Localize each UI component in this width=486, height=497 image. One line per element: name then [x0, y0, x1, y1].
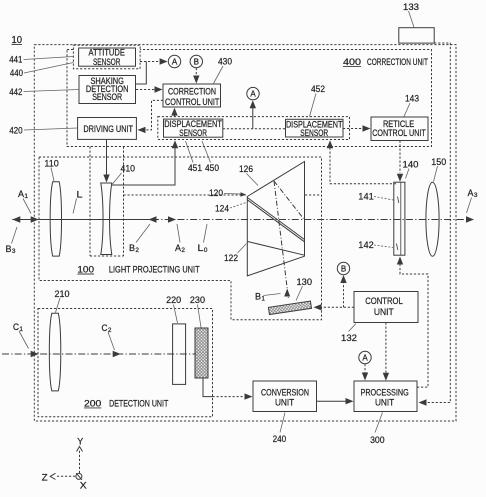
svg-text:SENSOR: SENSOR: [93, 57, 121, 67]
svg-text:124: 124: [215, 203, 229, 214]
svg-text:133: 133: [403, 2, 419, 13]
svg-text:230: 230: [190, 295, 205, 306]
svg-text:442: 442: [9, 87, 22, 98]
svg-text:CONTROL UNIT: CONTROL UNIT: [165, 97, 220, 107]
svg-text:Z: Z: [42, 472, 48, 483]
svg-text:L: L: [198, 243, 204, 253]
svg-text:DRIVING UNIT: DRIVING UNIT: [83, 124, 133, 134]
svg-text:130: 130: [297, 277, 313, 288]
svg-text:A: A: [172, 57, 178, 66]
svg-text:110: 110: [44, 158, 58, 169]
svg-text:SENSOR: SENSOR: [179, 128, 207, 138]
svg-text:0: 0: [204, 247, 208, 254]
svg-text:B: B: [129, 243, 135, 253]
svg-text:CONVERSION: CONVERSION: [261, 387, 309, 397]
svg-text:3: 3: [12, 248, 16, 255]
svg-text:CORRECTION UNIT: CORRECTION UNIT: [367, 57, 428, 68]
svg-text:1: 1: [261, 296, 265, 303]
svg-text:PROCESSING: PROCESSING: [361, 387, 409, 397]
svg-text:150: 150: [431, 157, 446, 168]
svg-text:143: 143: [405, 94, 419, 105]
svg-text:B: B: [6, 244, 12, 254]
svg-text:410: 410: [121, 164, 136, 175]
svg-text:240: 240: [273, 434, 287, 445]
svg-text:UNIT: UNIT: [374, 307, 394, 317]
svg-text:122: 122: [224, 253, 238, 264]
svg-text:B: B: [194, 57, 199, 66]
svg-text:A: A: [250, 89, 256, 98]
svg-text:Y: Y: [77, 437, 84, 448]
svg-text:430: 430: [218, 57, 232, 68]
svg-text:3: 3: [474, 192, 478, 199]
svg-text:2: 2: [181, 247, 185, 254]
svg-text:140: 140: [403, 160, 419, 171]
svg-text:UNIT: UNIT: [375, 398, 395, 408]
svg-text:132: 132: [341, 333, 357, 344]
svg-text:142: 142: [358, 240, 374, 251]
svg-text:LIGHT PROJECTING UNIT: LIGHT PROJECTING UNIT: [109, 265, 200, 276]
svg-text:441: 441: [9, 55, 22, 66]
svg-text:UNIT: UNIT: [275, 398, 295, 408]
svg-text:SENSOR: SENSOR: [300, 128, 328, 138]
svg-text:C: C: [13, 322, 19, 332]
svg-text:210: 210: [55, 289, 70, 300]
svg-text:451: 451: [188, 163, 202, 174]
svg-text:CONTROL UNIT: CONTROL UNIT: [372, 128, 426, 138]
svg-text:B: B: [341, 264, 346, 273]
svg-text:220: 220: [166, 295, 181, 306]
svg-text:300: 300: [370, 435, 385, 446]
svg-text:L: L: [77, 189, 83, 199]
svg-text:CONTROL: CONTROL: [365, 296, 403, 306]
svg-text:1: 1: [24, 193, 28, 200]
svg-text:X: X: [80, 480, 88, 491]
svg-text:DETECTION UNIT: DETECTION UNIT: [109, 399, 168, 410]
svg-text:440: 440: [10, 68, 23, 79]
svg-text:126: 126: [239, 164, 253, 175]
svg-text:2: 2: [135, 247, 139, 254]
svg-text:120: 120: [209, 188, 223, 199]
svg-text:C: C: [102, 323, 108, 333]
svg-text:452: 452: [311, 84, 325, 95]
svg-text:A: A: [362, 353, 368, 362]
svg-text:141: 141: [358, 192, 374, 203]
svg-text:B: B: [255, 292, 261, 302]
svg-text:450: 450: [205, 163, 219, 174]
svg-text:SENSOR: SENSOR: [92, 92, 122, 102]
svg-text:420: 420: [9, 126, 23, 137]
svg-text:CORRECTION: CORRECTION: [168, 87, 216, 97]
